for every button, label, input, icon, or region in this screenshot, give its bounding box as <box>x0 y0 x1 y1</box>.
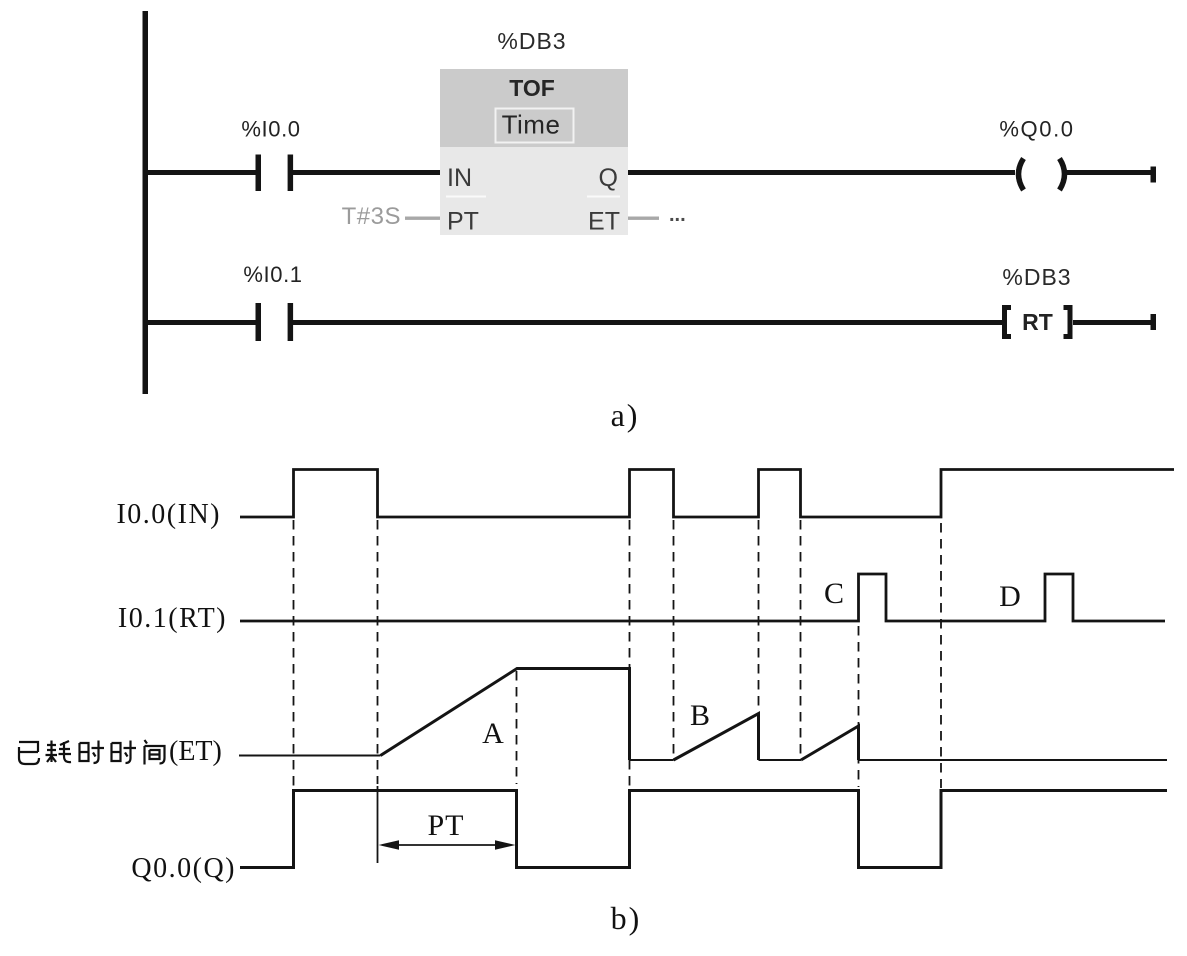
waveform RT <box>240 574 1165 621</box>
timer U1 TOF box <box>440 69 628 235</box>
dashed guide t8 <box>858 626 860 787</box>
contact I0.0 <box>256 155 294 192</box>
glyph 时 <box>112 741 137 764</box>
wire PT gray <box>405 217 440 220</box>
wire rung2 rail to contact <box>145 320 256 325</box>
svg-text:%DB3: %DB3 <box>1002 264 1071 290</box>
label 已耗时时间(ET) <box>19 740 165 765</box>
svg-text:PT: PT <box>427 809 464 842</box>
waveform ET ramps <box>381 669 859 761</box>
svg-text:D: D <box>999 580 1021 613</box>
svg-text:%I0.0: %I0.0 <box>241 117 300 142</box>
contact I0.1 <box>256 303 294 341</box>
rung2 end tick <box>1151 314 1157 330</box>
wire RT box to end <box>1073 320 1153 325</box>
wire rung1 rail to contact <box>145 170 256 175</box>
svg-text:RT: RT <box>1022 309 1053 335</box>
dashed guide t3 <box>516 671 518 784</box>
dashed guide t4 <box>629 520 631 786</box>
svg-text:Q0.0(Q): Q0.0(Q) <box>131 853 236 884</box>
svg-text:C: C <box>824 577 844 610</box>
coil Q0.0 <box>1019 159 1065 191</box>
svg-text:%I0.1: %I0.1 <box>243 262 302 287</box>
dashed guide t6 <box>758 520 760 712</box>
glyph 耗 <box>46 741 72 763</box>
dashed guide t1 <box>293 520 295 789</box>
glyph 时 <box>80 741 105 764</box>
svg-text:b): b) <box>611 900 642 936</box>
dashed guide t2 <box>377 520 379 784</box>
glyph 已 <box>19 742 39 764</box>
wire ET gray <box>628 217 659 220</box>
wire contact to RT box <box>292 320 1002 325</box>
svg-text:(ET): (ET) <box>169 736 222 767</box>
dashed guide t9 <box>940 523 942 788</box>
svg-text:ET: ET <box>588 208 620 236</box>
svg-text:B: B <box>690 699 710 732</box>
Time type box <box>496 109 574 143</box>
PT dimension arrow <box>379 840 516 849</box>
svg-text:Time: Time <box>502 110 561 140</box>
wire coil to end <box>1067 170 1153 175</box>
glyph 间 <box>145 740 165 765</box>
svg-text:...: ... <box>669 204 686 226</box>
svg-text:TOF: TOF <box>509 75 555 101</box>
svg-text:I0.1(RT): I0.1(RT) <box>118 603 227 634</box>
svg-text:PT: PT <box>447 208 479 236</box>
svg-text:%Q0.0: %Q0.0 <box>999 117 1074 142</box>
svg-text:Q: Q <box>599 164 618 192</box>
PT marker line <box>377 786 379 863</box>
left power rail <box>143 11 149 394</box>
waveform Q <box>240 791 1167 868</box>
reset box [ RT ] <box>1005 308 1071 337</box>
wire contact to timer box <box>292 170 441 175</box>
svg-text:A: A <box>482 717 504 750</box>
svg-text:T#3S: T#3S <box>342 203 401 230</box>
dashed guide t7 <box>800 520 802 756</box>
svg-text:%DB3: %DB3 <box>497 28 566 54</box>
waveform IN <box>240 470 1174 518</box>
waveform ET thin baseline <box>239 756 1167 761</box>
svg-text:a): a) <box>611 397 640 433</box>
svg-text:IN: IN <box>447 164 472 192</box>
pin separator lines <box>446 196 486 198</box>
wire Q to coil <box>628 170 1015 175</box>
svg-text:I0.0(IN): I0.0(IN) <box>116 499 221 530</box>
dashed guide t5 <box>673 520 675 757</box>
rung1 end tick <box>1151 167 1157 183</box>
